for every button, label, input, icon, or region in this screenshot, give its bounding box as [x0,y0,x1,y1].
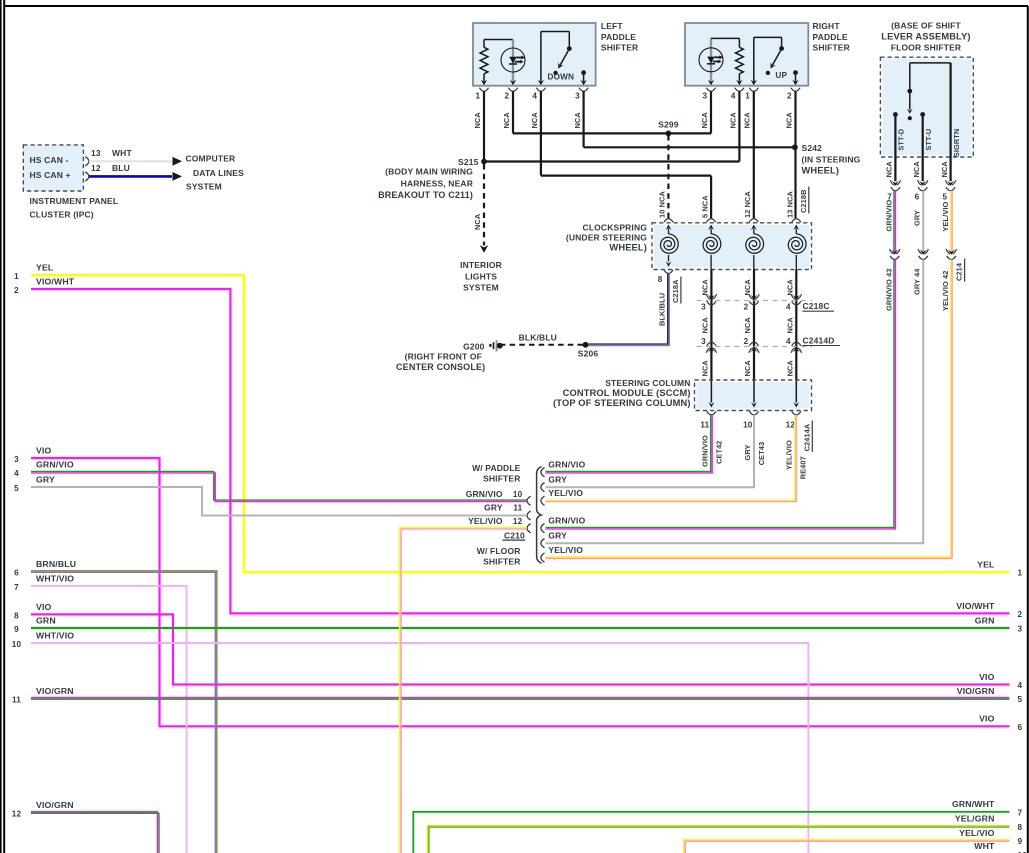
SCCM pin numbers 11 10 12 [700,421,795,430]
svg-text:GRY: GRY [36,474,55,484]
clockspring coil 3 [746,219,764,270]
wire RP pin3 down [710,91,712,133]
svg-text:GRY: GRY [743,444,752,460]
wire LP pin3 down [582,91,584,147]
wire 6 BRN/BLU left [14,559,217,853]
node STT-D [893,112,906,181]
svg-text:SYSTEM: SYSTEM [186,182,222,192]
IPC caption [30,196,119,220]
svg-text:13 NCA: 13 NCA [786,191,795,218]
C210 harness brace [537,467,542,564]
svg-text:5: 5 [14,484,19,493]
svg-text:6: 6 [915,192,920,201]
wire 9 GRN left [14,615,1009,634]
wire VIO/GRN 5 right label [957,686,1023,704]
svg-text:C218C: C218C [803,301,830,311]
node SIGRTN [951,63,961,181]
splice S299 [658,120,679,137]
svg-text:SHIFTER: SHIFTER [813,43,850,53]
svg-text:5: 5 [942,192,947,201]
svg-text:RE407: RE407 [798,456,807,479]
svg-text:3: 3 [702,91,707,100]
svg-text:G200: G200 [463,341,485,351]
svg-text:STEERING COLUMN: STEERING COLUMN [605,378,690,388]
C210 right wire arcs upper group [541,468,545,506]
svg-text:(TOP OF STEERING COLUMN): (TOP OF STEERING COLUMN) [553,398,691,408]
svg-text:YEL/VIO: YEL/VIO [548,545,583,555]
svg-text:CET43: CET43 [757,442,766,466]
svg-text:STT-U: STT-U [924,129,933,151]
svg-text:2: 2 [744,303,749,312]
svg-text:4: 4 [1018,681,1023,690]
svg-text:VIO: VIO [36,602,52,612]
svg-text:13: 13 [91,148,101,158]
svg-text:VIO/GRN: VIO/GRN [36,800,74,810]
svg-text:NCA: NCA [530,112,539,129]
clockspring coil 2 [703,219,721,270]
wire YEL/GRN 8 right [427,814,1022,853]
svg-text:NCA: NCA [743,317,752,334]
wire YEL/VIO floor pin 5 [941,191,952,251]
wire BLK/BLU from clockspring to S206 [586,273,669,345]
wire RP pin1 down to clockspring pin 12 [753,91,755,218]
svg-text:UP: UP [775,71,787,80]
SCCM internal pin arrows [707,380,801,415]
switch UP (right paddle) [751,37,788,85]
wire WHT pin 13 [89,148,172,161]
wire GRN 3 right label [975,615,1023,633]
svg-text:2: 2 [787,91,792,100]
svg-text:VIO/WHT: VIO/WHT [36,276,75,286]
wire S242 horizontal [584,146,796,148]
terminal pin 2 (right paddle) [792,70,798,85]
svg-text:11: 11 [513,504,522,513]
C210 right labels lower [548,515,585,555]
wire 8 VIO left [14,602,1009,685]
instrument panel cluster (IPC) box [23,145,83,191]
clockspring pin 8 cup [658,270,673,284]
svg-text:9: 9 [14,625,19,634]
svg-text:10: 10 [12,640,22,649]
svg-text:W/ FLOOR: W/ FLOOR [477,546,521,556]
svg-text:S299: S299 [658,120,679,130]
wire GRN/VIO floor pin 7 [885,191,896,251]
wire 12 VIO/GRN left [12,800,159,853]
svg-text:BLU: BLU [112,163,130,173]
resistor (right paddle) [736,38,744,85]
svg-text:GRN/VIO: GRN/VIO [885,199,894,231]
svg-text:HS CAN -: HS CAN - [30,155,69,165]
svg-text:NCA: NCA [701,317,710,334]
wire 1 YEL left [14,262,1009,572]
svg-text:NCA: NCA [473,112,482,129]
svg-text:3: 3 [701,303,706,312]
NCA labels between C218C and C2414D [701,317,795,334]
svg-text:10: 10 [743,421,753,430]
svg-text:SHIFTER: SHIFTER [601,43,638,53]
wire BLU pin 12 [89,163,172,176]
wire 2 VIO/WHT left [14,276,1009,613]
svg-text:BRN/BLU: BRN/BLU [36,559,76,569]
floor shifter NCA labels [885,161,949,178]
svg-text:VIO: VIO [979,714,995,724]
svg-text:NCA: NCA [701,360,710,377]
arrows to computer data lines system [173,154,245,192]
switch DOWN (left paddle) [538,32,574,86]
connector row C2414D [697,335,841,353]
svg-text:2: 2 [504,91,509,100]
svg-text:S215: S215 [458,157,479,167]
svg-text:YEL/VIO: YEL/VIO [785,440,794,470]
connector C218A label [671,277,681,304]
svg-text:NCA: NCA [743,360,752,377]
C210 right wire arcs lower group [541,524,545,563]
svg-text:3: 3 [575,91,580,100]
svg-text:12: 12 [12,810,22,819]
svg-text:8: 8 [658,275,663,284]
svg-text:GRY: GRY [548,530,567,540]
svg-text:YEL/VIO: YEL/VIO [941,201,950,231]
svg-text:C210: C210 [504,530,525,540]
clockspring top pin labels [658,191,795,218]
svg-text:12: 12 [786,421,796,430]
clockspring coil 1 [660,219,678,267]
svg-text:NCA: NCA [785,112,794,129]
C210 left wire arcs [527,496,531,533]
IPC connector arcs [85,157,89,181]
svg-text:(BODY MAIN WIRING: (BODY MAIN WIRING [385,167,473,177]
svg-text:GRN: GRN [36,615,56,625]
left paddle shifter box [473,21,638,86]
LED (right paddle) [699,38,739,85]
svg-text:12: 12 [513,517,523,526]
svg-text:11: 11 [700,421,709,430]
wire 4 GRN/VIO left to C210 pin 10 [14,460,527,502]
svg-text:YEL: YEL [977,560,995,570]
svg-text:C214: C214 [955,262,964,281]
floor shifter selector switch [907,63,951,120]
svg-text:STT-D: STT-D [897,128,906,150]
svg-text:GRN/VIO: GRN/VIO [466,489,503,499]
C210 right labels upper [548,459,585,498]
wire 3 VIO left [14,445,1009,726]
LED (left paddle) [501,40,525,86]
svg-text:1: 1 [745,91,750,100]
svg-text:YEL/VIO: YEL/VIO [548,488,583,498]
ground G200 [396,340,503,372]
svg-text:6: 6 [1018,723,1023,732]
wire GRY CET43 from SCCM to C210 [546,415,766,487]
svg-text:YEL/GRN: YEL/GRN [955,814,995,824]
svg-text:VIO/GRN: VIO/GRN [957,686,995,696]
dashed NCA wire S299 to clockspring pin 10 [667,135,669,218]
svg-text:NCA: NCA [729,112,738,129]
connector C210 labels [466,463,526,567]
floor shifter connector pins 7 6 5 [887,180,956,201]
svg-text:NCA: NCA [573,112,582,129]
wire GRY floor pin 6 [912,191,923,251]
wire WHT 10 right label [974,841,1027,853]
svg-text:2: 2 [14,286,19,295]
svg-text:INSTRUMENT PANEL: INSTRUMENT PANEL [30,196,119,206]
wire GRN/VIO CET42 from SCCM to C210 [546,415,724,473]
svg-text:VIO: VIO [36,445,52,455]
svg-text:GRN/WHT: GRN/WHT [952,799,995,809]
svg-text:4: 4 [786,337,791,346]
svg-text:NCA: NCA [701,279,710,296]
svg-text:2: 2 [744,337,749,346]
wire 5 GRY left to C210 pin 11 [14,474,527,515]
wire LP pin2 down [512,91,514,133]
svg-text:PADDLE: PADDLE [813,32,848,42]
splice S242 [792,143,861,175]
svg-text:GRN: GRN [975,615,995,625]
steering column control module (SCCM) box [553,378,811,411]
svg-text:CLOCKSPRING: CLOCKSPRING [583,222,648,232]
svg-text:NCA: NCA [473,213,482,230]
connector C2414A label [802,421,812,452]
svg-text:1: 1 [1018,569,1023,578]
svg-text:WHT: WHT [974,841,995,851]
svg-text:VIO/WHT: VIO/WHT [956,601,995,611]
svg-text:CLUSTER (IPC): CLUSTER (IPC) [30,210,94,220]
svg-text:4: 4 [14,469,19,478]
svg-text:INTERIOR: INTERIOR [460,260,502,270]
wire LP pin4 down [540,91,542,175]
clockspring coil 4 [788,219,806,270]
floor shifter box [880,20,973,157]
wire S215 horizontal [484,160,739,162]
svg-text:VIO: VIO [979,672,995,682]
clockspring box [566,222,812,269]
svg-text:3: 3 [1018,625,1023,634]
svg-text:WHT/VIO: WHT/VIO [36,630,74,640]
wire YEL/VIO 9 right [684,828,1023,853]
svg-text:4: 4 [786,303,791,312]
svg-text:GRY: GRY [548,474,567,484]
NCA labels below C2414D [701,360,795,377]
svg-text:BLK/BLU: BLK/BLU [658,293,667,326]
svg-text:SIGRTN: SIGRTN [952,129,961,158]
wire VIO 6 right label [979,714,1022,732]
svg-text:SYSTEM: SYSTEM [463,283,499,293]
svg-text:4: 4 [532,91,537,100]
svg-text:GRN/VIO: GRN/VIO [548,459,585,469]
svg-text:12: 12 [91,163,101,173]
wire S299 horizontal joining LED pins [513,132,711,134]
svg-text:C2414D: C2414D [803,335,835,345]
svg-text:(UNDER STEERING: (UNDER STEERING [566,233,647,243]
svg-text:10: 10 [513,490,523,499]
arrow to interior lights system [460,245,502,292]
svg-text:NCA: NCA [700,112,709,129]
svg-text:NCA: NCA [502,112,511,129]
svg-text:BREAKOUT TO C211): BREAKOUT TO C211) [378,190,473,200]
svg-text:NCA: NCA [885,161,894,178]
wire LP pin1 to S215 [483,91,485,161]
terminal pin 3 (left paddle) [580,70,586,85]
splice S206 [578,342,599,359]
wire RP pin4 down [738,91,740,161]
svg-text:NCA: NCA [786,317,795,334]
svg-text:NCA: NCA [743,279,752,296]
svg-text:NCA: NCA [786,360,795,377]
svg-text:11: 11 [12,695,21,704]
dashed wire S206 to G200 [502,344,583,346]
wire clockspring pin 2 column [753,270,755,381]
wire GRN/VIO 43 from C214 to C210 [546,260,896,529]
wire GRY 44 from C214 to C210 [546,260,924,544]
svg-text:GRY: GRY [912,210,921,226]
svg-text:(BASE OF SHIFT: (BASE OF SHIFT [891,20,961,30]
wire clockspring pin 4 column [795,270,797,381]
svg-text:W/ PADDLE: W/ PADDLE [472,463,521,473]
svg-text:YEL/VIO: YEL/VIO [959,828,994,838]
wire VIO/WHT 2 right label [956,601,1022,619]
svg-text:9: 9 [1018,837,1023,846]
svg-text:GRN/VIO: GRN/VIO [36,460,74,470]
right paddle shifter box [685,21,850,86]
svg-text:S206: S206 [578,348,599,358]
svg-text:YEL: YEL [36,262,54,272]
svg-text:NCA: NCA [786,279,795,296]
left paddle pin numbers and connector cups [473,88,588,129]
svg-text:2: 2 [1018,610,1023,619]
svg-text:WHT: WHT [112,148,132,158]
svg-text:VIO/GRN: VIO/GRN [36,686,74,696]
dashed NCA wire S215 to interior lights [473,164,484,246]
svg-text:(RIGHT FRONT OF: (RIGHT FRONT OF [405,352,482,362]
svg-text:WHEEL): WHEEL) [609,243,647,253]
svg-text:3: 3 [701,337,706,346]
svg-text:GRN/VIO 43: GRN/VIO 43 [885,269,894,311]
svg-text:FLOOR SHIFTER: FLOOR SHIFTER [891,42,961,52]
svg-text:7: 7 [1018,808,1023,817]
svg-text:12 NCA: 12 NCA [743,191,752,218]
splice S215 [378,157,487,200]
svg-text:RIGHT: RIGHT [813,21,841,31]
svg-text:WHEEL): WHEEL) [802,166,840,176]
svg-text:CONTROL MODULE (SCCM): CONTROL MODULE (SCCM) [563,388,691,398]
svg-text:BLK/BLU: BLK/BLU [519,332,557,342]
node STT-U [920,112,933,181]
svg-text:DOWN: DOWN [548,73,575,82]
svg-text:1: 1 [14,272,19,281]
svg-text:C2414A: C2414A [802,423,811,451]
svg-text:CET42: CET42 [714,440,723,464]
wire VIO 4 right label [979,672,1022,690]
svg-text:S242: S242 [802,143,823,153]
svg-text:LEFT: LEFT [601,21,624,31]
svg-text:LIGHTS: LIGHTS [465,271,497,281]
wire clockspring pin 3 column [710,270,712,381]
NCA labels above C218C [701,279,795,296]
right paddle pin numbers and connector cups [700,88,800,129]
svg-text:YEL/VIO: YEL/VIO [468,516,503,526]
svg-text:NCA: NCA [742,112,751,129]
svg-text:WHT/VIO: WHT/VIO [36,573,74,583]
svg-text:PADDLE: PADDLE [601,32,636,42]
svg-text:NCA: NCA [912,161,921,178]
connector C214 [890,249,965,282]
wire YEL/VIO RE407 from SCCM to C210 [546,415,808,502]
svg-text:5 NCA: 5 NCA [700,195,709,218]
svg-text:NCA: NCA [940,161,949,178]
wire 7 WHT/VIO left [14,573,186,853]
svg-text:8: 8 [1018,823,1023,832]
svg-text:5: 5 [1018,695,1023,704]
wire 11 VIO/GRN left [12,686,1009,705]
svg-text:C218A: C218A [671,279,680,303]
svg-text:GRY: GRY [484,503,503,513]
svg-text:6: 6 [14,569,19,578]
resistor (left paddle) [480,40,513,86]
wire YEL/VIO 42 from C214 to C210 [546,260,953,559]
wire RP pin2 down to clockspring pin 13 [794,91,796,218]
connector row C218C [697,294,835,312]
svg-text:3: 3 [14,455,19,464]
svg-text:10 NCA: 10 NCA [658,191,667,218]
svg-text:GRY 44: GRY 44 [912,268,921,295]
svg-text:GRN/VIO: GRN/VIO [701,435,710,467]
svg-text:(IN STEERING: (IN STEERING [802,154,861,164]
svg-text:LEVER ASSEMBLY): LEVER ASSEMBLY) [881,31,970,41]
svg-text:7: 7 [14,583,19,592]
wire YEL/VIO 12 from C210 down [400,527,527,853]
wire YEL 1 right label [977,560,1022,578]
wire 10 WHT/VIO left [12,630,809,853]
svg-text:COMPUTER: COMPUTER [186,154,236,164]
svg-text:HARNESS, NEAR: HARNESS, NEAR [401,178,473,188]
svg-text:HS CAN +: HS CAN + [30,170,71,180]
wire LP pin4 to clockspring pin 5 [541,176,711,219]
svg-text:DATA LINES: DATA LINES [193,168,244,178]
connector C218B label [799,187,809,214]
svg-text:SHIFTER: SHIFTER [483,473,520,483]
svg-text:CENTER CONSOLE): CENTER CONSOLE) [396,362,485,372]
svg-text:YEL/VIO 42: YEL/VIO 42 [941,271,950,311]
svg-text:C218B: C218B [799,189,808,213]
wire GRN/WHT 7 right [413,799,1022,853]
svg-text:GRN/VIO: GRN/VIO [548,515,585,525]
svg-text:8: 8 [14,611,19,620]
svg-text:1: 1 [475,91,480,100]
svg-text:4: 4 [731,91,736,100]
svg-text:SHIFTER: SHIFTER [483,557,520,567]
